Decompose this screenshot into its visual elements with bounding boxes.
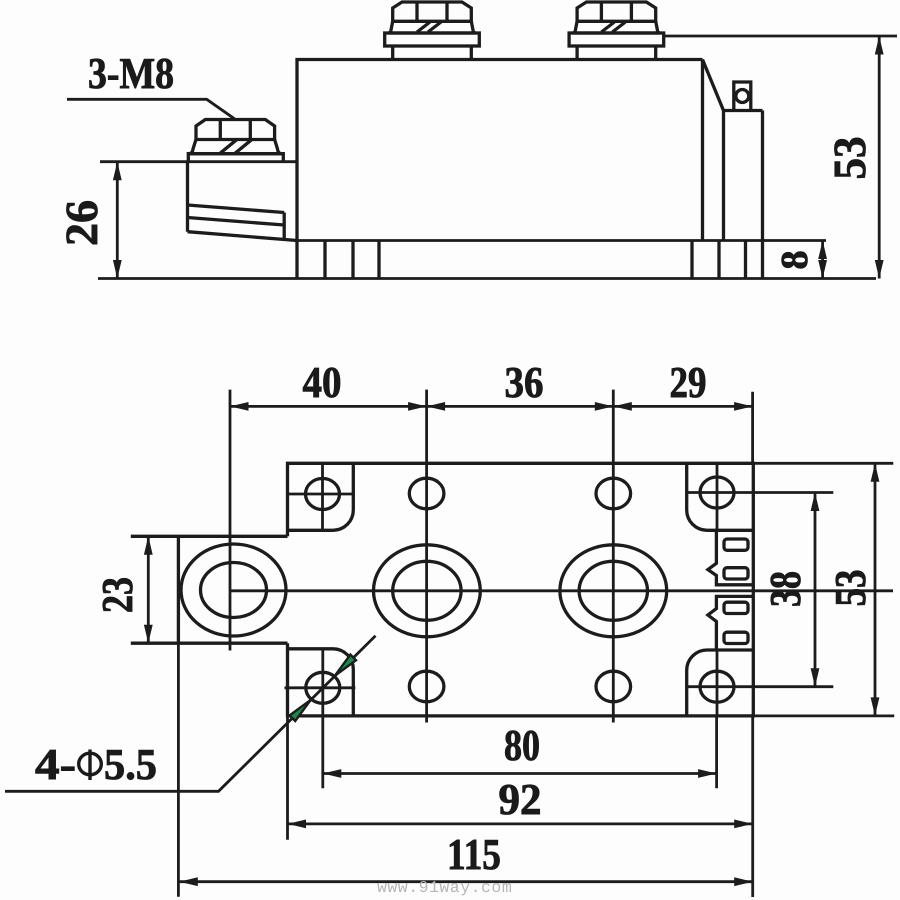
dimension 8 bbox=[774, 241, 827, 279]
svg-text:36: 36 bbox=[505, 358, 544, 407]
small hole bottom 2 bbox=[596, 671, 631, 702]
centerline vertical left tab bbox=[229, 390, 232, 651]
corner relief bottom-left bbox=[288, 649, 354, 716]
gate slot 4 bbox=[724, 632, 748, 643]
dimension 92 bbox=[288, 716, 753, 840]
svg-text:92: 92 bbox=[499, 775, 542, 824]
label 4-phi5.5 with leader bbox=[5, 636, 376, 792]
bolt B1 (top middle) bbox=[385, 2, 480, 60]
small hole top 1 bbox=[409, 478, 444, 509]
plan view outline bbox=[288, 463, 754, 716]
dimension 23 bbox=[93, 536, 153, 643]
centerline horizontal bbox=[230, 589, 893, 592]
dimension row 40 36 29 bbox=[230, 358, 753, 463]
left terminal tab (side view) bbox=[100, 162, 297, 241]
svg-text:3-M8: 3-M8 bbox=[88, 49, 174, 98]
bolt B2 (top right) bbox=[569, 2, 664, 60]
svg-text:8: 8 bbox=[774, 251, 816, 270]
svg-text:80: 80 bbox=[504, 721, 540, 770]
dimension 53 (plan) bbox=[753, 463, 894, 716]
green arrow lower bbox=[290, 700, 311, 721]
small hole bottom 1 bbox=[409, 671, 444, 702]
corner hole BL bbox=[285, 649, 356, 717]
dimension 53 (side view) bbox=[664, 36, 897, 279]
svg-text:4-: 4- bbox=[35, 740, 76, 789]
gate slot 3 bbox=[724, 602, 748, 613]
small hole top 2 bbox=[596, 478, 631, 509]
corner hole TL bbox=[288, 463, 356, 531]
corner relief top-right bbox=[687, 463, 754, 530]
green arrow upper bbox=[335, 655, 356, 676]
side view baseplate bbox=[98, 111, 876, 279]
left tab plan view bbox=[131, 536, 288, 643]
terminal 2 circles bbox=[560, 545, 667, 637]
side view module body bbox=[297, 60, 703, 279]
corner hole TR bbox=[687, 463, 754, 531]
centerline vertical terminal 1 bbox=[425, 390, 428, 723]
terminal 1 circles bbox=[374, 545, 481, 637]
spade terminal with hole bbox=[734, 82, 751, 111]
svg-text:40: 40 bbox=[303, 358, 342, 407]
svg-text:www.91way.com: www.91way.com bbox=[377, 878, 512, 897]
svg-text:38: 38 bbox=[761, 571, 810, 607]
bolt B3 (left on tab) bbox=[188, 120, 283, 162]
corner hole BR bbox=[687, 650, 754, 716]
svg-text:26: 26 bbox=[56, 200, 107, 246]
svg-text:5.5: 5.5 bbox=[104, 740, 157, 789]
svg-text:23: 23 bbox=[93, 577, 142, 613]
svg-text:115: 115 bbox=[447, 830, 501, 879]
connector outline right side bbox=[708, 532, 753, 650]
dimension 26 bbox=[56, 162, 122, 279]
dimension 115 bbox=[178, 643, 752, 897]
gate slot 1 bbox=[724, 539, 748, 550]
svg-text:29: 29 bbox=[670, 358, 707, 407]
corner relief bottom-right bbox=[687, 650, 754, 716]
label 3-M8 bbox=[67, 49, 235, 119]
side view right column bbox=[703, 60, 763, 241]
dimension 80 bbox=[323, 716, 717, 788]
svg-text:53: 53 bbox=[826, 570, 875, 607]
dimension 38 bbox=[753, 493, 833, 687]
centerline vertical terminal 2 bbox=[612, 390, 615, 723]
svg-text:53: 53 bbox=[824, 137, 875, 180]
corner relief top-left bbox=[288, 463, 354, 530]
gate slot 2 bbox=[724, 568, 748, 579]
